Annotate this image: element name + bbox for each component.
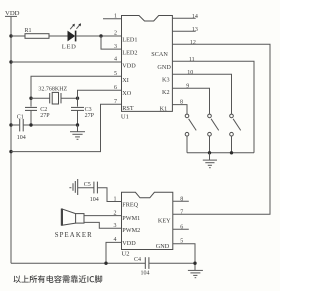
svg-text:U1: U1 <box>121 113 129 120</box>
switch S3 <box>230 114 241 153</box>
svg-text:K3: K3 <box>162 77 170 84</box>
crystal Y1 32.768KHZ <box>38 87 67 104</box>
svg-text:104: 104 <box>90 197 99 203</box>
svg-text:LED1: LED1 <box>122 36 137 43</box>
speaker LS1 <box>55 209 93 239</box>
svg-text:XO: XO <box>122 90 131 97</box>
capacitor C4 104 <box>134 257 150 276</box>
wire U1 pin 9 K2 to switch S2 <box>172 88 209 114</box>
svg-text:U2: U2 <box>122 250 130 257</box>
LED D1 <box>62 23 81 50</box>
node rail-RST junction <box>9 150 12 153</box>
node rail-R1 junction <box>9 34 12 37</box>
svg-text:C4: C4 <box>134 257 141 263</box>
svg-text:PWM2: PWM2 <box>122 227 140 234</box>
wire crystal right lead <box>61 97 78 99</box>
svg-text:13: 13 <box>192 27 198 33</box>
svg-text:104: 104 <box>141 271 150 277</box>
node GND-C4 junction <box>193 262 196 265</box>
svg-text:10: 10 <box>187 70 193 76</box>
svg-text:27P: 27P <box>40 113 50 119</box>
svg-text:GND: GND <box>157 64 171 71</box>
svg-text:LED2: LED2 <box>122 50 137 57</box>
switch S1 <box>185 114 196 153</box>
node C2-ground junction <box>29 123 32 126</box>
wire speaker to U2 pin 3 PWM2 <box>84 222 122 228</box>
svg-text:3: 3 <box>114 223 117 229</box>
svg-text:FREQ: FREQ <box>122 202 138 209</box>
svg-text:RST: RST <box>122 105 134 112</box>
node C3-ground junction <box>76 123 79 126</box>
svg-text:2: 2 <box>114 31 117 37</box>
switch S2 <box>208 114 219 153</box>
wire U1 pin 7 RST to VDD rail <box>11 104 122 151</box>
svg-text:3: 3 <box>114 44 117 50</box>
U2 pin 6 stub <box>173 224 189 230</box>
note text: capacitors must be close to IC pins <box>14 275 103 283</box>
svg-text:K1: K1 <box>160 105 168 112</box>
U2 pin 8 stub <box>173 196 189 202</box>
wire switch common bus <box>187 152 254 154</box>
svg-text:2: 2 <box>114 210 117 216</box>
svg-text:5: 5 <box>114 71 117 77</box>
svg-text:4: 4 <box>114 57 117 63</box>
wire VDD rail (left bus) <box>10 17 12 263</box>
capacitor C5 104 <box>78 182 99 203</box>
node XI-crystal-C2 junction <box>29 97 32 100</box>
ground (switch bus) <box>203 153 217 168</box>
capacitor C3 27P <box>71 107 95 125</box>
IC U1 <box>121 16 172 121</box>
svg-text:7: 7 <box>114 99 117 105</box>
svg-text:C1: C1 <box>17 114 24 120</box>
svg-text:VDD: VDD <box>122 240 136 247</box>
node VDD power flag <box>5 10 20 17</box>
svg-text:LED: LED <box>62 44 77 51</box>
U1 pin 13 stub <box>172 27 198 33</box>
U1 pin 1 stub <box>103 13 122 19</box>
svg-text:11: 11 <box>189 57 195 63</box>
svg-text:12: 12 <box>190 40 196 46</box>
svg-text:27P: 27P <box>85 113 95 119</box>
svg-text:GND: GND <box>156 243 170 250</box>
node rail-pin4 junction <box>9 60 12 63</box>
svg-text:PWM1: PWM1 <box>122 215 140 222</box>
svg-text:SPEAKER: SPEAKER <box>55 232 93 239</box>
wire U1 pin 11 GND to switch bus <box>172 61 254 153</box>
svg-text:6: 6 <box>114 85 117 91</box>
node rail-C1 junction <box>9 123 12 126</box>
svg-text:4: 4 <box>114 237 117 243</box>
svg-text:KEY: KEY <box>158 217 171 224</box>
signal source symbol <box>69 179 77 195</box>
node pin2/pin3 junction <box>99 34 102 37</box>
U1 pin 14 stub <box>172 14 198 20</box>
svg-text:6: 6 <box>180 224 183 230</box>
wire C1 to ground node <box>24 124 78 126</box>
svg-text:XI: XI <box>122 77 129 84</box>
svg-text:VDD: VDD <box>122 62 136 69</box>
svg-text:C5: C5 <box>84 182 91 188</box>
svg-text:8: 8 <box>180 196 183 202</box>
node pin4-bottom rail junction <box>104 262 107 265</box>
wire VDD to U1 pin 4 <box>11 61 122 63</box>
resistor R1 <box>11 28 68 39</box>
wire speaker to U2 pin 2 PWM1 <box>84 215 122 217</box>
IC U2 <box>122 192 173 257</box>
svg-text:SCAN: SCAN <box>151 51 168 58</box>
svg-text:K2: K2 <box>162 89 170 96</box>
wire crystal left lead <box>31 97 50 99</box>
wire U1 pin 6 XO to crystal node <box>78 90 122 106</box>
wire U2 pin 4 VDD to bottom rail <box>106 242 122 263</box>
svg-text:R1: R1 <box>25 28 32 34</box>
wire U1 pin 10 K3 to switch S3 <box>172 74 231 114</box>
ground (bottom right) <box>188 270 203 277</box>
wire U2 pin 5 GND to ground <box>173 244 195 270</box>
wire U1 pin 8 K1 to switch S1 <box>172 105 187 114</box>
node bus-ground junction <box>208 151 211 154</box>
svg-text:1: 1 <box>114 13 117 19</box>
ground (crystal area) <box>70 125 85 139</box>
wire C4 to ground <box>149 262 195 264</box>
svg-text:7: 7 <box>180 209 183 215</box>
wire LED cathode to U1 pin 2 <box>76 35 122 37</box>
wire junction to U1 pin 3 <box>101 36 122 49</box>
node bus-S3 junction <box>230 151 233 154</box>
capacitor C1 104 <box>11 114 26 141</box>
capacitor C2 27P <box>25 107 50 125</box>
wire bottom VDD rail to C4 <box>11 262 145 264</box>
svg-text:32.768KHZ: 32.768KHZ <box>38 87 67 93</box>
svg-text:1: 1 <box>114 196 117 202</box>
wire U1 pin 5 XI to crystal node <box>31 76 122 106</box>
svg-text:104: 104 <box>17 135 26 141</box>
node XO-crystal-C3 junction <box>76 97 79 100</box>
svg-text:14: 14 <box>192 14 198 20</box>
wire C5 to U2 pin 1 FREQ <box>98 188 122 202</box>
wire U1 pin 12 SCAN to U2 pin 7 KEY <box>172 44 270 214</box>
